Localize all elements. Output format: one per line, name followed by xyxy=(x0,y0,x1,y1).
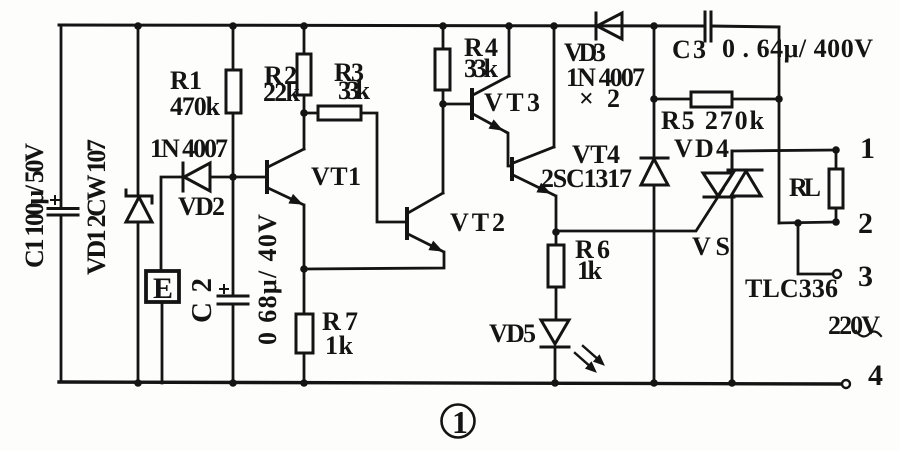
label VT4 xyxy=(572,140,620,169)
wire triac bottom to rail xyxy=(731,197,734,383)
transistor VT2 xyxy=(407,193,443,251)
svg-text:R5 270k: R5 270k xyxy=(661,106,765,135)
junction terminal2 xyxy=(832,218,840,226)
label terminal 2 xyxy=(858,207,873,240)
diode VD2 xyxy=(183,163,210,191)
svg-text:33k: 33k xyxy=(464,54,499,83)
wire VD5 bottom xyxy=(554,347,557,383)
label R2 xyxy=(264,61,297,90)
label R6 value xyxy=(577,256,603,285)
wire VD2 anode to node xyxy=(210,176,233,179)
svg-text:1: 1 xyxy=(860,132,875,165)
resistor R2 xyxy=(297,54,311,95)
label R1 value xyxy=(170,92,221,121)
svg-text:C3: C3 xyxy=(672,35,706,64)
wire R6 bottom to VD5 xyxy=(555,287,558,319)
wire VD1 branch upper xyxy=(137,26,140,195)
wire node to VT1 base xyxy=(233,176,265,179)
diode VD3 (top rail inline) xyxy=(596,13,622,39)
label 2SC1317 xyxy=(541,164,632,193)
label RL xyxy=(789,173,821,202)
label E xyxy=(153,272,173,305)
junction top rail VT4 collector xyxy=(550,22,558,30)
wire R2 top xyxy=(303,26,306,54)
junction node VD2 R1 xyxy=(229,173,237,181)
label VD3 x2 xyxy=(579,84,620,113)
svg-text:2: 2 xyxy=(858,207,873,240)
label C2 (rotated) xyxy=(186,278,218,323)
label R3 value xyxy=(338,76,371,105)
wire C2 bottom xyxy=(232,305,235,383)
wire R2 bottom xyxy=(303,95,306,113)
label R7 value xyxy=(325,331,354,360)
resistor R3 xyxy=(318,106,361,120)
junction node R5 right xyxy=(775,95,783,103)
capacitor C1 xyxy=(48,196,78,215)
label C2 value 68u 40V (rotated) xyxy=(253,214,282,345)
svg-text:1k: 1k xyxy=(577,256,603,285)
junction top rail VT3 collector xyxy=(505,22,513,30)
wire R7 top xyxy=(303,269,306,314)
wire VT4 collector up xyxy=(553,26,556,147)
wire top rail right segment xyxy=(711,26,779,27)
svg-text:× 2: × 2 xyxy=(579,84,620,113)
wire emitter rail to VT2 xyxy=(304,252,444,269)
AC squiggle on 220V xyxy=(856,331,881,336)
wire VD4 branch top (rail to R5) xyxy=(653,26,656,158)
svg-text:C1 100μ/ 50V: C1 100μ/ 50V xyxy=(20,143,49,268)
label R6 xyxy=(575,235,610,264)
svg-text:VT3: VT3 xyxy=(484,88,540,117)
svg-text:VD2: VD2 xyxy=(178,192,225,221)
terminal 4 circle xyxy=(842,380,850,388)
wire VT2 collector up xyxy=(442,104,445,193)
wire R3 right to VT2 base xyxy=(361,113,404,222)
wire R7 bottom xyxy=(303,353,306,383)
wire VT3 base xyxy=(443,103,470,106)
label R2 value xyxy=(263,78,301,107)
svg-text:0 . 64μ/ 400V: 0 . 64μ/ 400V xyxy=(722,34,873,63)
junction top rail R4 xyxy=(439,22,447,30)
junction bottom rail VD4 xyxy=(650,379,658,387)
wire R4 top xyxy=(442,26,445,49)
LED VD5 arrows xyxy=(575,346,604,372)
figure number circle 1 xyxy=(442,404,475,440)
svg-text:VT2: VT2 xyxy=(450,208,505,237)
junction node R2 R3 VT1 xyxy=(300,109,308,117)
svg-text:VS: VS xyxy=(692,232,730,261)
resistor R6 xyxy=(548,245,564,287)
wire node down to C2 xyxy=(232,177,235,295)
wire VD4 bottom to rail xyxy=(653,185,656,383)
junction bottom rail VS xyxy=(728,379,736,387)
svg-text:VT1: VT1 xyxy=(311,162,361,191)
wire RL bottom xyxy=(835,208,838,222)
svg-text:470k: 470k xyxy=(170,92,221,121)
label R7 xyxy=(322,307,358,336)
label C3 value xyxy=(672,35,706,64)
label VT3 xyxy=(484,88,540,117)
label terminal 4 xyxy=(868,359,883,392)
junction bottom rail VD5 xyxy=(551,379,559,387)
transistor VT1 xyxy=(267,149,304,204)
transistor VT3 xyxy=(472,76,509,132)
junction node R4 VT3 xyxy=(439,100,447,108)
wire sensor E to VD2 anode xyxy=(161,177,184,271)
wire VT3 emitter to VT4 base xyxy=(506,132,511,166)
transistor VT4 xyxy=(512,147,554,195)
junction top rail R2 xyxy=(300,22,308,30)
junction bottom rail VD1 xyxy=(134,379,142,387)
svg-text:RL: RL xyxy=(789,173,821,202)
wire VT1 emitter down xyxy=(303,205,306,269)
label VD3 1N4007 xyxy=(566,63,645,92)
label VD1 2CW107 (rotated) xyxy=(82,139,111,275)
junction bottom rail C2 xyxy=(229,379,237,387)
label VD5 xyxy=(489,319,536,348)
svg-text:VD1 2CW 107: VD1 2CW 107 xyxy=(82,139,111,275)
label 220V xyxy=(828,311,880,340)
label VS xyxy=(692,232,730,261)
wire R1 top xyxy=(232,26,235,70)
capacitor C3 (top rail inline) xyxy=(705,12,711,41)
wire VD1 branch lower xyxy=(137,222,140,383)
svg-text:R 1: R 1 xyxy=(170,66,202,95)
resistor R5 xyxy=(654,92,779,107)
wire VT4 emitter down xyxy=(555,196,558,232)
label R1 xyxy=(170,66,202,95)
resistor R4 xyxy=(435,49,450,90)
junction bottom rail R7 xyxy=(300,379,308,387)
label C3 value2 xyxy=(722,34,873,63)
junction top rail R1 xyxy=(229,22,237,30)
resistor R7 xyxy=(296,314,313,353)
label R3 xyxy=(334,58,364,87)
label C1 value (rotated) xyxy=(20,143,49,268)
svg-text:1N 4007: 1N 4007 xyxy=(150,134,228,163)
junction node VT4 emitter R6 xyxy=(552,228,560,236)
svg-text:4: 4 xyxy=(868,359,883,392)
wire top rail left segment xyxy=(59,25,705,26)
svg-text:VD5: VD5 xyxy=(489,319,536,348)
wire triac gate horizontal xyxy=(556,189,723,231)
svg-text:1k: 1k xyxy=(325,331,354,360)
junction terminal3 branch xyxy=(794,219,802,227)
wire terminal2 horizontal xyxy=(779,222,836,223)
wire VT1 collector up xyxy=(303,113,306,149)
label TLC336 xyxy=(745,274,838,303)
wire VT3 collector up xyxy=(508,26,511,76)
resistor RL xyxy=(829,169,843,208)
label VD4 xyxy=(674,134,729,163)
svg-text:33k: 33k xyxy=(338,76,371,105)
zener diode VD1 xyxy=(126,190,152,222)
svg-text:1: 1 xyxy=(452,404,468,440)
label 1N4007 for VD2 xyxy=(150,134,228,163)
wire triac top to terminal1 xyxy=(732,150,836,151)
junction top rail VD4 xyxy=(650,22,658,30)
svg-text:E: E xyxy=(153,272,173,305)
label VD2 xyxy=(178,192,225,221)
label terminal 1 xyxy=(860,132,875,165)
svg-text:TLC336: TLC336 xyxy=(745,274,838,303)
label R4 xyxy=(464,33,498,62)
svg-text:0 68μ/ 40V: 0 68μ/ 40V xyxy=(253,214,282,345)
wire terminal3 branch xyxy=(798,223,832,274)
wire R4 bottom xyxy=(442,90,445,104)
label VT2 xyxy=(450,208,505,237)
resistor R1 xyxy=(226,70,241,113)
sensor E box xyxy=(146,271,179,302)
junction top rail VD1 xyxy=(134,22,142,30)
label R5 270k xyxy=(661,106,765,135)
wire right vertical from C3 corner down to terminal2 level xyxy=(778,27,781,223)
capacitor C2 xyxy=(218,285,248,304)
label R4 value xyxy=(464,54,499,83)
svg-text:C2: C2 xyxy=(186,278,218,323)
label terminal 3 xyxy=(858,260,873,293)
wire E box to bottom rail xyxy=(161,302,164,383)
diode VD4 xyxy=(641,158,668,185)
svg-text:220V: 220V xyxy=(828,311,880,340)
junction node VT1 emitter xyxy=(300,265,308,273)
wire R6 top xyxy=(555,232,558,245)
junction terminal1 xyxy=(832,146,840,154)
svg-text:VD4: VD4 xyxy=(674,134,729,163)
wire left branch lower (C1 bottom) xyxy=(60,216,63,382)
junction node R5 left xyxy=(650,95,658,103)
terminal 3 circle xyxy=(833,270,841,278)
wire R3 left xyxy=(304,112,318,115)
label VT1 xyxy=(311,162,361,191)
svg-text:3: 3 xyxy=(858,260,873,293)
svg-text:1N 4007: 1N 4007 xyxy=(566,63,645,92)
wire R1 bottom to node xyxy=(232,113,235,177)
svg-text:2SC1317: 2SC1317 xyxy=(541,164,632,193)
wire RL top xyxy=(835,150,838,169)
wire left branch upper (C1 top) xyxy=(60,25,63,207)
LED VD5 xyxy=(541,320,569,347)
wire bottom rail xyxy=(59,382,842,384)
triac VS xyxy=(703,151,762,197)
label VD3 xyxy=(564,38,606,67)
svg-text:22k: 22k xyxy=(263,78,301,107)
